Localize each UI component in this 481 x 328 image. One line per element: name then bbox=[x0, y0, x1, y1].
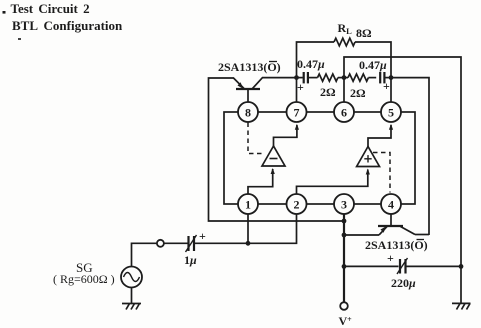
wire: Q1 collector to pin7 node bbox=[262, 77, 297, 79]
wire: pin5 to node bbox=[390, 78, 392, 103]
pin 6 bbox=[334, 102, 354, 122]
svg-text:8Ω: 8Ω bbox=[356, 26, 372, 40]
svg-text:V+: V+ bbox=[339, 314, 353, 328]
svg-text:RL: RL bbox=[338, 21, 353, 36]
wire: RL right to pin5 node bbox=[355, 42, 391, 78]
junction dot input/pin1 bbox=[246, 241, 251, 246]
wire R1 to node6 bbox=[338, 77, 348, 79]
svg-text:0.47μ: 0.47μ bbox=[297, 57, 325, 71]
svg-text:5: 5 bbox=[388, 106, 394, 120]
wire R2 to C2 bbox=[368, 77, 376, 79]
wire: pin1 internal to opamp U1a input bbox=[248, 169, 273, 194]
pin 3 bbox=[334, 194, 354, 214]
svg-text:BTL Configuration: BTL Configuration bbox=[12, 18, 123, 33]
wire: pin5 node right then down to Q2 collector bbox=[391, 78, 429, 235]
wire: RL branch top bbox=[297, 42, 335, 78]
capacitor C3 1u bbox=[186, 235, 249, 252]
svg-text:+: + bbox=[297, 80, 304, 94]
resistor R2 2ohm bbox=[348, 74, 368, 81]
transistor Q1 2SA1313 bbox=[234, 78, 263, 103]
svg-text:3: 3 bbox=[341, 198, 347, 212]
svg-text:2Ω: 2Ω bbox=[320, 85, 336, 99]
pin 7 bbox=[287, 102, 307, 122]
svg-text:4: 4 bbox=[388, 198, 394, 212]
transistor Q2 2SA1313 bbox=[344, 214, 429, 235]
svg-text:0.47μ: 0.47μ bbox=[359, 58, 387, 72]
junction node pin5 bbox=[389, 75, 394, 80]
pin 4 bbox=[381, 194, 401, 214]
svg-text:+: + bbox=[199, 229, 206, 243]
resistor RL bbox=[334, 38, 355, 46]
opamp U1a bbox=[262, 146, 285, 166]
junction node pin7 bbox=[294, 75, 299, 80]
junction dot V+ rail / left loop bbox=[342, 219, 347, 224]
svg-text:+: + bbox=[387, 251, 394, 265]
stray mark bbox=[18, 38, 21, 40]
svg-text:Test Circuit 2: Test Circuit 2 bbox=[11, 1, 90, 16]
wire: node6 up over to right ground rail bbox=[344, 57, 461, 304]
wire: opamp U1b output to pin5 bbox=[368, 125, 391, 147]
pin 5 bbox=[381, 102, 401, 122]
wire: SG up to input node bbox=[132, 243, 157, 266]
svg-text:1: 1 bbox=[245, 198, 251, 212]
pin 1 bbox=[238, 194, 258, 214]
pin 8 bbox=[238, 102, 258, 122]
capacitor C4 220u bbox=[344, 258, 461, 274]
resistor R1 2ohm bbox=[318, 74, 338, 81]
opamp U1b bbox=[357, 147, 380, 167]
wire: SG down to ground bbox=[131, 288, 133, 304]
wire: pin7 to node bbox=[296, 78, 298, 103]
wire: opamp U1a output to pin7 bbox=[274, 125, 297, 146]
V+ terminal bbox=[340, 302, 348, 310]
wire: terminal to C3 bbox=[164, 242, 188, 244]
wire: pin1 down to input line bbox=[247, 214, 249, 243]
dashed wire: opamp U1b to pin4 bbox=[373, 153, 390, 193]
junction node pin6 bbox=[342, 75, 347, 80]
wire: Q1 emitter feed, left outer loop down to V+ rail bbox=[209, 78, 344, 221]
junction dot 220u bbox=[342, 264, 347, 269]
capacitor C2 0.47u plates bbox=[380, 72, 391, 83]
svg-text:1μ: 1μ bbox=[184, 253, 197, 267]
junction dot Q2 emitter bbox=[342, 233, 347, 238]
IC package outline bbox=[224, 112, 415, 204]
signal generator SG bbox=[121, 267, 142, 288]
input terminal circle bbox=[157, 240, 164, 247]
capacitor C1 0.47u plates bbox=[297, 72, 318, 83]
wire: pin3 down to V+ terminal bbox=[343, 214, 345, 302]
wire: input line to pin2 bbox=[248, 214, 297, 243]
pin 2 bbox=[287, 194, 307, 214]
svg-text:220μ: 220μ bbox=[391, 276, 416, 290]
svg-text:2: 2 bbox=[294, 198, 300, 212]
svg-text:7: 7 bbox=[294, 106, 300, 120]
svg-text:( Rg=600Ω ): ( Rg=600Ω ) bbox=[53, 272, 115, 286]
svg-text:2Ω: 2Ω bbox=[350, 86, 366, 100]
dashed wire: pin8 to opamp U1a bbox=[248, 123, 265, 154]
wire: pin2 internal to opamp U1b input bbox=[297, 170, 368, 195]
svg-text:6: 6 bbox=[341, 106, 347, 120]
svg-text:+: + bbox=[383, 79, 390, 93]
ground right rail bbox=[452, 303, 471, 309]
junction dot right rail bbox=[459, 264, 464, 269]
svg-text:8: 8 bbox=[245, 106, 251, 120]
ground SG bbox=[122, 304, 141, 310]
